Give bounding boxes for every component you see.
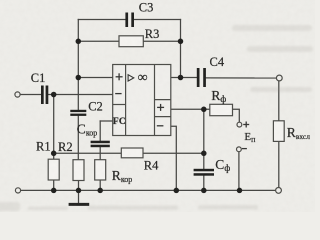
- wire: left feedback vertical (top wire to C2 top plate): [77, 20, 79, 111]
- E- minus sign: [242, 148, 247, 150]
- node: C1 output junction: [51, 92, 57, 98]
- capacitor C-phi: [194, 169, 214, 176]
- op-amp U1 output minus sign: [157, 125, 164, 127]
- node: R1 bottom on bus: [51, 188, 57, 194]
- node: ground junction on bus: [76, 188, 82, 194]
- wire: R1 bottom to ground bus: [53, 180, 55, 190]
- wire: C1 node to op-amp inverting input: [48, 94, 113, 96]
- node: right feedback at R3: [178, 39, 184, 45]
- node: left feedback at op-amp plus input: [76, 75, 82, 81]
- resistor R1: [48, 159, 59, 180]
- node: R-kor bottom on bus: [97, 188, 103, 194]
- E+ plus sign: [243, 122, 249, 128]
- resistor R-phi: [210, 104, 233, 115]
- capacitor C3: [125, 13, 134, 28]
- op-amp U1 body: [113, 65, 171, 136]
- node: left feedback at R3: [76, 39, 82, 45]
- wire: op-amp minus output down to bottom bus: [171, 126, 177, 190]
- resistor R2: [73, 160, 84, 181]
- wire: E- terminal down to bottom bus: [238, 152, 240, 191]
- wire: R2 bottom to ground bus: [78, 181, 80, 191]
- wire: C2 bottom plate to R2 top: [77, 116, 79, 160]
- wire: C-kor bottom plate to R-kor top: [99, 147, 101, 160]
- E- supply terminal: [237, 147, 242, 152]
- wire: R-vhsl to bottom right terminal: [278, 141, 280, 187]
- capacitor C4: [197, 68, 206, 87]
- wire: op-amp plus output to R-phi: [171, 108, 210, 110]
- node: E- on bus: [237, 188, 243, 194]
- output terminal top right: [276, 75, 282, 81]
- resistor R-kor: [95, 160, 106, 180]
- wire: op-amp output to C4: [171, 77, 197, 79]
- node: C-phi bottom on bus: [201, 188, 207, 194]
- node: R4 right junction: [201, 151, 207, 157]
- E+ supply terminal: [237, 122, 242, 127]
- wire: R3 right lead: [143, 40, 180, 42]
- input terminal: [15, 92, 20, 97]
- ground: bar: [69, 203, 90, 206]
- wire: top feedback right segment from C3: [134, 19, 181, 21]
- wire: bottom bus: [21, 189, 276, 191]
- op-amp U1 input plus sign: [116, 73, 123, 80]
- output terminal bottom right: [276, 188, 282, 194]
- wire: output terminal down to R-vhsl: [278, 81, 280, 121]
- wire: R3 left lead: [78, 40, 119, 42]
- bottom left terminal: [15, 188, 20, 193]
- wire: R-kor bottom to ground bus: [99, 180, 101, 190]
- wire: feedback node to op-amp non-inverting input: [78, 77, 112, 79]
- capacitor C-kor: [91, 141, 110, 148]
- node: output junction: [178, 75, 184, 81]
- ground: stub: [78, 190, 80, 203]
- wire: FC pin horizontal: [100, 120, 113, 122]
- wire: C-phi bottom to bottom bus: [203, 176, 205, 191]
- resistor R4: [121, 148, 143, 158]
- capacitor C2: [70, 110, 86, 116]
- capacitor C1: [41, 86, 48, 105]
- wire: C4 to output terminal: [206, 77, 277, 79]
- node: R-phi left junction: [201, 107, 207, 113]
- resistor R3: [119, 36, 143, 47]
- resistor R-vhsl: [273, 121, 284, 142]
- wire: R-phi to E+ terminal: [233, 109, 240, 122]
- scan artifact smudges (decorative): [0, 25, 313, 211]
- wire: C1 node down to R1 top: [53, 95, 55, 160]
- op-amp U1 output plus sign: [157, 104, 164, 111]
- wire: top feedback left segment to C3: [78, 19, 125, 21]
- wire: right feedback vertical (top wire to output node): [180, 20, 182, 78]
- wire: horizontal bus through R4 (R1 top node to C-phi vertical): [54, 152, 204, 154]
- op-amp U1 input minus sign: [115, 93, 121, 95]
- op-amp U1 triangle symbol: [128, 75, 134, 81]
- wire: input terminal to C1: [20, 94, 41, 96]
- node: R1 top junction: [51, 151, 57, 157]
- wire: R-phi node down through R4 node to C-phi: [203, 109, 205, 169]
- node: op-amp minus output on bus: [174, 188, 180, 194]
- wire: FC node down to C-kor top plate: [99, 121, 101, 141]
